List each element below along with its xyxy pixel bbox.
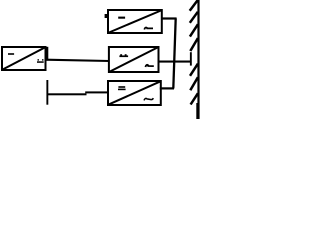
inverter U3 (DC/AC, middle box) <box>109 47 159 72</box>
wall hatch stroke 3 <box>190 24 198 36</box>
wire to U4 input (right segment after jog) <box>85 91 108 93</box>
wall hatch stroke 5 <box>190 64 198 76</box>
AC tilde mark of U4 <box>144 98 153 100</box>
wire from U1 output to inverter U3 input (node DC bus) <box>46 60 110 61</box>
diagonal of U2 <box>109 11 161 33</box>
diagonal of U1 <box>2 47 45 70</box>
grid terminal bar (junction at wall) <box>190 52 192 65</box>
DC equals mark of U4 <box>118 86 126 90</box>
wire from U3 output through AC bus to grid <box>159 61 192 63</box>
wall hatch stroke 6 <box>190 77 198 90</box>
wall hatch stroke 7 <box>191 93 198 104</box>
input stub of U2 (left pin) <box>105 14 108 18</box>
converter U1 (DC/DC, left box) <box>2 47 46 70</box>
AC tilde mark of U3 <box>145 65 153 67</box>
grid wall line lower thick part <box>196 103 199 119</box>
wall hatch stroke 1 <box>190 0 198 11</box>
inverter U4 (DC/AC, bottom box) <box>108 81 161 105</box>
wire from U4 output to AC bus <box>160 87 174 89</box>
AC bus vertical wire <box>173 19 175 89</box>
DC mark of U3 (bar with two bumps) <box>119 54 128 57</box>
diagonal of U3 <box>110 48 158 72</box>
dotted DC mark of U1 (bottom-right, two dots over bar) <box>37 59 44 63</box>
DC dash mark of U2 <box>118 17 125 19</box>
wire from U2 output to AC bus <box>162 17 177 19</box>
diagonal of U4 <box>109 82 160 105</box>
grid wall line <box>197 0 199 119</box>
vertical wire at U4 input branch (node B) <box>46 80 48 105</box>
wire to U4 input (left segment) <box>47 93 87 95</box>
AC tilde mark of U2 <box>144 27 153 29</box>
DC dash mark of U1 (top-left) <box>8 53 14 55</box>
wall hatch stroke 4 <box>190 38 198 51</box>
wire stub rising from DC bus (junction) <box>47 47 49 61</box>
inverter U2 (DC/AC, top box) <box>108 10 162 33</box>
wall hatch stroke 2 <box>190 12 198 23</box>
